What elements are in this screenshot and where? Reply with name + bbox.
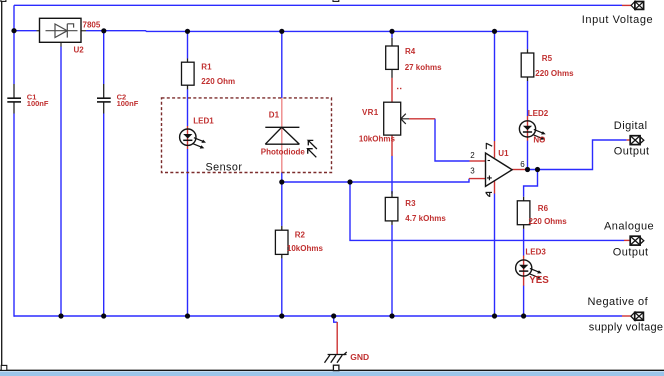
resistor R6: [517, 197, 530, 229]
pin 7: [486, 143, 492, 149]
svg-text:220 Ohms: 220 Ohms: [529, 217, 568, 226]
node junction rail pin4: [492, 313, 497, 318]
node junction rail R3: [389, 313, 394, 318]
svg-text:100nF: 100nF: [117, 99, 139, 108]
wire red to analogue output terminal: [624, 239, 630, 241]
capacitor C1: [7, 84, 21, 114]
svg-text:YES: YES: [529, 275, 549, 286]
svg-text:27 kohms: 27 kohms: [405, 63, 442, 72]
node junction R4 rail: [389, 29, 394, 34]
svg-text:D1: D1: [269, 111, 280, 120]
node junction rail LED1: [185, 313, 190, 318]
node analogue tap junction: [347, 179, 352, 184]
wire ground tap: [334, 316, 338, 322]
resistor R4: [386, 38, 399, 78]
wire red to digital output terminal: [627, 139, 630, 141]
wire bottom rail: [14, 315, 622, 317]
svg-text:3: 3: [470, 167, 475, 176]
wire pin2 stub: [470, 160, 486, 162]
wire left vertical lower: [13, 114, 15, 317]
regulator U2 7805: [37, 18, 87, 46]
svg-text:Analogue: Analogue: [604, 220, 654, 232]
wire VR1 wiper to pin2: [435, 119, 470, 161]
wire +V top net: [14, 4, 622, 6]
wire D1 column top: [281, 31, 283, 98]
wire VR1 to blue: [391, 135, 393, 156]
svg-text:R5: R5: [542, 54, 553, 63]
node junction C2 rail: [101, 28, 106, 33]
wire R1 column top: [187, 31, 189, 59]
wire red to input voltage terminal: [622, 4, 631, 6]
wire wiper horizontal: [409, 118, 435, 120]
svg-text:Photodiode: Photodiode: [261, 148, 306, 157]
wire LED1 segment: [187, 126, 189, 149]
op-amp U1: [486, 153, 513, 186]
wire R2 to rail: [281, 258, 283, 316]
svg-text:GND: GND: [350, 352, 369, 362]
wire LED3 segment: [523, 256, 525, 286]
svg-text:220 Ohm: 220 Ohm: [201, 77, 235, 86]
svg-text:LED3: LED3: [525, 247, 546, 256]
wire output node to digital output: [528, 140, 627, 170]
resistor R5: [521, 49, 534, 81]
wire R5 to LED2: [527, 81, 529, 116]
wire R5 column top: [527, 31, 529, 49]
wire pin3 stub: [469, 178, 486, 180]
svg-text:10kOhms: 10kOhms: [287, 244, 324, 253]
node junction R1 rail: [185, 29, 190, 34]
LED LED3: [516, 260, 542, 279]
wire LED1 to rail: [187, 149, 189, 316]
wire output node to R6 jog: [524, 170, 538, 197]
mark above VR1: [397, 88, 401, 89]
svg-text:220 Ohms: 220 Ohms: [535, 69, 574, 78]
svg-text:VR1: VR1: [362, 108, 379, 117]
node junction rail C2: [101, 313, 106, 318]
wire op-amp pin4 to rail: [494, 193, 496, 316]
node junction rail GND: [331, 313, 336, 318]
svg-text:Output: Output: [614, 145, 650, 157]
svg-text:2: 2: [470, 151, 475, 160]
node junction rail R2: [279, 313, 284, 318]
terminal Digital Output: [630, 136, 644, 145]
svg-text:U2: U2: [74, 46, 85, 55]
wire R6 to LED3: [523, 229, 525, 256]
wire LED2 segment: [527, 116, 529, 141]
wire C2 column upper: [103, 31, 105, 84]
wire VR1 bottom to R3: [391, 156, 393, 194]
resistor R1: [182, 59, 195, 90]
node junction rail U2: [58, 313, 63, 318]
svg-text:4.7 kOhms: 4.7 kOhms: [405, 214, 446, 223]
node junction output 1: [525, 167, 530, 172]
node junction rail LED3: [521, 313, 526, 318]
svg-text:Input Voltage: Input Voltage: [582, 14, 653, 26]
wire R4 to VR1: [391, 78, 393, 103]
wire node A to pin3: [282, 179, 469, 182]
wire D1 to node A: [281, 173, 283, 226]
LED LED1: [180, 129, 206, 149]
wire 5V rail left of U2: [14, 30, 37, 32]
sensor dashed enclosure: [162, 98, 332, 173]
node A junction: [279, 179, 284, 184]
terminal Negative supply: [631, 312, 644, 320]
wire LED2 to output node: [527, 141, 529, 170]
svg-text:Negative of: Negative of: [588, 296, 649, 308]
node junction left rail: [11, 28, 16, 33]
ground: [325, 352, 347, 371]
photodiode D1: [265, 127, 317, 157]
svg-text:Sensor: Sensor: [206, 162, 243, 174]
svg-text:U1: U1: [498, 149, 509, 158]
wire ground stem: [336, 322, 338, 354]
svg-text:6: 6: [520, 160, 525, 169]
capacitor C2: [97, 84, 111, 114]
resistor R3: [385, 191, 398, 225]
wire node A analogue tap: [350, 182, 624, 240]
svg-text:NO: NO: [533, 135, 545, 144]
potentiometer VR1: [384, 102, 409, 135]
node junction output 2: [535, 167, 540, 172]
wire C2 column lower: [103, 114, 105, 317]
svg-text:LED2: LED2: [528, 109, 549, 118]
wire LED3 to rail: [523, 286, 525, 317]
wire 5V rail right of U2: [86, 30, 528, 33]
resistor R2: [275, 226, 288, 259]
wire op-amp output pin6: [512, 169, 528, 171]
svg-text:R3: R3: [405, 199, 416, 208]
svg-text:R4: R4: [405, 47, 416, 56]
svg-text:10kOhms: 10kOhms: [359, 135, 396, 144]
wire left vertical upper: [13, 5, 15, 84]
terminal Input Voltage: [631, 2, 644, 10]
svg-text:LED1: LED1: [193, 117, 214, 126]
wire U2 ground column: [60, 47, 62, 317]
svg-text:7805: 7805: [83, 21, 101, 30]
wire op-amp pin4 stub: [494, 181, 496, 194]
wire op-amp pin7 stub: [494, 141, 496, 158]
node junction D1 rail: [279, 29, 284, 34]
svg-text:100nF: 100nF: [27, 99, 49, 108]
LED LED2: [519, 121, 545, 140]
svg-text:Digital: Digital: [614, 120, 648, 132]
svg-text:supply voltage: supply voltage: [589, 322, 664, 334]
svg-text:R1: R1: [201, 62, 212, 71]
wire red to negative supply terminal: [622, 315, 631, 317]
pin 4: [486, 192, 493, 197]
terminal Analogue Output: [630, 236, 644, 245]
node junction pin7 rail: [492, 29, 497, 34]
svg-text:R2: R2: [295, 231, 306, 240]
svg-text:Output: Output: [613, 246, 649, 258]
wire op-amp pin7 supply: [494, 31, 496, 141]
wire R1 to LED1: [187, 89, 189, 126]
wire R3 to rail: [391, 225, 393, 316]
wire D1 salmon segment: [281, 98, 283, 173]
wire R4 column top: [391, 31, 393, 38]
svg-text:R6: R6: [538, 204, 549, 213]
